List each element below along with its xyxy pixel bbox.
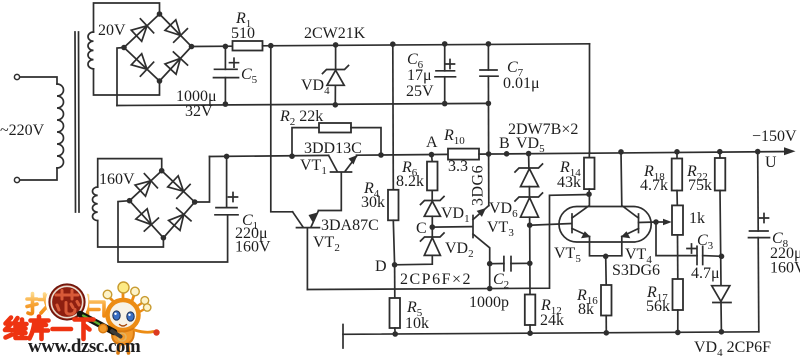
svg-text:3.3: 3.3 [448, 158, 468, 175]
wire: R2 right down to rail [351, 128, 381, 155]
node C7 at common bus [486, 101, 492, 107]
wire diode to ground bus [720, 303, 722, 332]
zener VD4 triangle [327, 70, 344, 85]
watermark magnifier lens [49, 284, 85, 320]
zener VD1 triangle [424, 201, 440, 216]
svg-text:−150V: −150V [752, 128, 797, 145]
node C7/VT3 riser [486, 151, 492, 157]
VT1 collector lead [329, 155, 337, 171]
resistor R14 [584, 158, 595, 190]
bridge2 diode bottom-left [136, 209, 151, 225]
wire: bridge1 right to R1 [192, 45, 233, 47]
node R22 top [717, 149, 723, 155]
zener VD2 bar [421, 233, 445, 241]
plus sign C6 [446, 60, 455, 69]
node D [392, 262, 398, 268]
capacitor C1 plates [216, 207, 237, 209]
diode VD4(2CP6F) bar [713, 302, 731, 304]
node VD6 bottom [527, 222, 533, 228]
wire pot to R17 [677, 235, 679, 279]
node C3 right [719, 253, 725, 259]
node bridge1 bottom [157, 78, 163, 84]
plus sign C3 [687, 244, 696, 253]
wire: R1 to top bus [263, 44, 590, 46]
char wei [5, 318, 27, 339]
svg-text:2CP6F×2: 2CP6F×2 [400, 271, 472, 288]
mascot hand on pen [99, 324, 107, 332]
svg-text:30k: 30k [361, 194, 385, 211]
node top bus x393 [390, 41, 396, 47]
node C7 top [486, 41, 492, 47]
node C5 top [223, 44, 229, 50]
node R18 top [674, 149, 680, 155]
primary winding [57, 84, 64, 168]
wire: 160V positive rail [210, 155, 329, 156]
svg-text:D: D [375, 258, 387, 275]
node bridge2 right [192, 199, 198, 205]
node C2 right [527, 261, 533, 267]
wire: VT5 emitter to common [590, 237, 606, 256]
svg-text:3DD13C: 3DD13C [304, 140, 362, 157]
svg-text:43k: 43k [557, 174, 581, 191]
wire: C node to VT3 base [432, 226, 472, 229]
bridge1 diamond [124, 14, 192, 81]
node VT4 collector at rail [618, 149, 624, 155]
wire: VT4 emitter to common [606, 237, 622, 256]
resistor R16 [601, 285, 612, 316]
wire: VD6 node to VT5 base [530, 224, 571, 226]
wire: common bus 32V [117, 103, 488, 105]
wire: rail to R22 [719, 152, 721, 158]
svg-text:75k: 75k [688, 177, 712, 194]
svg-text:20V: 20V [98, 22, 126, 39]
svg-text:25V: 25V [406, 83, 434, 100]
svg-text:17μ: 17μ [407, 67, 432, 84]
wire: primary bottom to AC terminal bottom [18, 168, 57, 180]
zener VD4 bar [323, 66, 349, 74]
VT2 base lead down to feedback line [306, 229, 308, 290]
zener VD5 triangle [521, 169, 539, 187]
terminal bottom [14, 177, 19, 182]
VT3 collector lead [473, 234, 490, 264]
watermark char pian (chip) [88, 296, 105, 317]
capacitor C8 plates [750, 230, 769, 232]
node VD4 top [333, 42, 339, 48]
node R5 at bus [392, 331, 398, 337]
wire: rail to R18 [676, 152, 678, 159]
VT5 emitter lead with arrow [572, 229, 590, 237]
svg-text:2CW21K: 2CW21K [304, 25, 366, 42]
wire: C2 right to VD6 node line [511, 262, 530, 264]
resistor R4 [388, 190, 399, 221]
char xia [75, 320, 94, 340]
wire VD2 to D node [395, 255, 433, 264]
bridge1 diode top-right [165, 20, 181, 36]
svg-text:160V: 160V [235, 239, 271, 256]
resistor R2 [319, 123, 351, 133]
transistor VT5 base bar [571, 214, 573, 233]
VT1 emitter lead with arrow [345, 156, 356, 171]
pot wiper arrow [656, 221, 668, 223]
node B [504, 151, 510, 157]
wire: 20V top to bridge1 top [94, 3, 160, 32]
svg-text:32V: 32V [185, 103, 213, 120]
svg-text:www.dzsc.com: www.dzsc.com [28, 336, 141, 356]
node VT4 base / wiper junction [653, 219, 659, 225]
char yi [53, 327, 72, 332]
svg-text:A: A [426, 134, 438, 151]
node R12 at bus [527, 330, 533, 336]
mascot antenna center [122, 291, 125, 300]
svg-text:24k: 24k [540, 312, 564, 329]
node emitters common [603, 253, 609, 259]
VT2 collector lead [293, 212, 303, 227]
node C5 bottom [223, 101, 229, 107]
svg-text:4.7μ: 4.7μ [691, 265, 720, 282]
resistor R22 [715, 158, 726, 191]
svg-text:510: 510 [231, 25, 255, 42]
watermark text weiku yixia (vector strokes) [5, 317, 94, 340]
wire R17 to ground bus [677, 310, 679, 332]
capacitor C6 plates [436, 70, 455, 72]
wire: wiper node down and right to C3 [656, 222, 697, 256]
node C8 top [755, 149, 761, 155]
wire R5 to ground bus [394, 328, 396, 334]
watermark char xin (core) inside magnifier [56, 291, 79, 315]
svg-text:S3DG6: S3DG6 [612, 262, 660, 279]
wire R22 down to diode [720, 191, 721, 286]
plus sign C8 [760, 214, 769, 223]
resistor R6 [427, 162, 438, 191]
wire: rail left riser for R2 [292, 128, 319, 157]
node R14 bottom [586, 191, 592, 197]
VT3 emitter lead with arrow up [473, 206, 489, 220]
svg-text:~220V: ~220V [0, 122, 45, 139]
node VT3 collector at line [487, 286, 493, 292]
wire C6 top [444, 44, 446, 71]
mascot head ring [108, 300, 139, 330]
node VD at bus [719, 329, 725, 335]
watermark magnifier handle / pen [80, 314, 114, 332]
node bridge2 left [127, 198, 133, 204]
node R17 at bus [675, 330, 681, 336]
mascot mouth [120, 325, 127, 327]
wire: C5 top [224, 46, 226, 69]
mascot antenna right2 [138, 302, 144, 306]
core [74, 32, 77, 212]
plus sign C5 [230, 58, 239, 67]
wire VD1 to C [431, 216, 433, 227]
resistor R12 [525, 295, 536, 326]
wire: long feedback line [307, 195, 589, 290]
transistor VT1 base bar [331, 171, 352, 173]
svg-text:3DG6: 3DG6 [470, 165, 487, 206]
bridge2 diamond [130, 171, 195, 238]
wire C7 bottom down to mid rail [487, 76, 489, 154]
wire: C1 top riser [226, 156, 228, 207]
node R2 right at rail [378, 152, 384, 158]
node bridge1 left [121, 45, 127, 51]
bridge2 diode bottom-right [169, 214, 184, 230]
wire R16 to ground bus [605, 316, 607, 334]
node VT3 collector / C2 left [487, 261, 493, 267]
node R16 at bus [604, 330, 610, 336]
wire: C8 bottom to ground bus corner [757, 238, 760, 332]
wire: rail VT1 emitter to R10 [357, 153, 449, 156]
wire: top bus down to R4 [392, 44, 395, 190]
wire: AC terminal top to primary [18, 77, 57, 84]
resistor R1 [233, 41, 263, 51]
capacitor C2 plates [503, 257, 505, 271]
zener VD2 triangle [424, 238, 440, 256]
wire VD4 top [335, 45, 337, 70]
node riser top at R1 output [268, 43, 274, 49]
wire: common to R16 [605, 256, 608, 285]
diode VD4(2CP6F) triangle [712, 286, 730, 302]
wire: C5 bottom [224, 78, 226, 105]
svg-text:0.01μ: 0.01μ [503, 75, 540, 92]
wire: riser from R1 node down to VT2 collector [271, 46, 293, 212]
mascot eyes [113, 311, 120, 320]
wire D to R5 [394, 265, 396, 298]
svg-text:10k: 10k [405, 315, 429, 332]
wire R4 to D [393, 220, 394, 264]
zener VD1 bar [421, 197, 445, 205]
stadium outline [559, 207, 651, 243]
160V secondary winding [92, 187, 97, 221]
mascot antenna right3 [139, 309, 146, 313]
node bridge1 top [157, 11, 163, 17]
potentiometer 1k box [672, 205, 683, 235]
wire: bridge2 left corner to C1 negative [118, 201, 228, 262]
node bridge1 right [189, 44, 195, 50]
node C6 top [442, 41, 448, 47]
transistor VT4 base bar [638, 214, 640, 233]
capacitor C7 plates [480, 69, 497, 71]
VT2 emitter lead with arrow [311, 211, 318, 227]
wire: rail to C8 [757, 152, 760, 231]
svg-text:56k: 56k [646, 298, 670, 315]
svg-text:160V: 160V [99, 171, 135, 188]
wire: 20V bottom to bridge1 bottom [94, 69, 160, 95]
capacitor C5 plates [215, 68, 238, 70]
resistor R10 [448, 149, 479, 160]
wire C to VD2 [431, 227, 433, 237]
wire R14 bottom [588, 189, 590, 194]
wire: VD5 top [528, 154, 530, 168]
arrow -150V output [784, 147, 796, 155]
wire C7 top [487, 44, 489, 70]
svg-text:3DA87C: 3DA87C [321, 217, 379, 234]
wire: VT3 emitter riser to B rail [488, 154, 490, 206]
VT4 collector lead riser to rail [621, 152, 639, 218]
node VD5 top [526, 151, 532, 157]
wire: 160V top to bridge2 top [98, 159, 162, 187]
bridge1 diode top-left [131, 26, 147, 42]
wire: bridge1 left corner down to common bus [117, 48, 124, 106]
node C1 at rail [224, 154, 230, 160]
wire C6 bottom [444, 77, 446, 104]
node bridge2 top [159, 168, 165, 174]
node VD4 bottom [333, 102, 339, 108]
mascot antenna left [109, 297, 114, 302]
watermark magnifier white ring [48, 283, 87, 322]
capacitor C3 plates [696, 246, 698, 264]
plus sign C1 [229, 193, 238, 202]
wire: VT4 base out [639, 221, 657, 224]
char ku [30, 317, 49, 340]
VT1 base lead [318, 173, 341, 211]
transistor VT2 base bar [297, 227, 320, 229]
wire: C2 left [490, 263, 504, 265]
wire: rail R10 to right arrow [479, 152, 791, 155]
zener VD5 bar [515, 164, 543, 172]
watermark char zhao (find) [27, 294, 52, 315]
svg-text:U: U [765, 154, 777, 171]
wire: 160V bottom to bridge2 bottom [98, 221, 164, 247]
wire: top bus right corner down [589, 44, 591, 153]
node R2 left at rail [289, 153, 295, 159]
resistor R18 [672, 159, 683, 191]
resistor R5 [390, 298, 401, 328]
node A [429, 152, 435, 158]
wire: C3 right to R22 riser [703, 255, 722, 258]
resistor R17 [673, 279, 684, 310]
bridge1 diode bottom-right [165, 58, 180, 74]
ground bus terminator bar [342, 325, 344, 349]
node C6 bottom [442, 101, 448, 107]
VT4 emitter lead with arrow [622, 229, 639, 237]
mascot body [112, 329, 134, 345]
wire: riser through rail into R14 [588, 152, 590, 157]
ground bus [343, 332, 759, 335]
wire VD4 bottom [334, 85, 336, 105]
wire R18 to pot [676, 191, 678, 206]
mascot legs [118, 345, 129, 354]
svg-text:VD4 2CP6F: VD4 2CP6F [694, 339, 771, 356]
wire R12 to ground bus [529, 325, 531, 333]
svg-text:8k: 8k [578, 301, 594, 318]
svg-text:1k: 1k [689, 210, 705, 227]
mascot arm right [135, 330, 154, 332]
bridge1 diode bottom-left [131, 54, 147, 69]
svg-text:1000p: 1000p [469, 294, 509, 311]
wire: VT3 collector to feedback line [489, 264, 491, 289]
wire VD6 to node [529, 217, 531, 225]
svg-text:8.2k: 8.2k [396, 173, 424, 190]
mascot antenna right1 [132, 294, 135, 301]
wire: VD6 node down through C2 node to R12 [529, 225, 531, 294]
wire VD5-VD6 [528, 187, 530, 197]
svg-text:C: C [416, 220, 427, 237]
bridge2 diode top-right [168, 176, 184, 192]
zener VD6 bar [515, 193, 543, 201]
transistor VT3 base bar [472, 216, 474, 238]
svg-text:160V: 160V [770, 260, 800, 277]
VT5 collector lead [572, 194, 589, 218]
node C [430, 224, 436, 230]
wire R6 to VD1 [431, 190, 433, 200]
20V secondary winding [88, 32, 94, 69]
node bridge2 bottom [161, 235, 167, 241]
svg-text:4.7k: 4.7k [640, 177, 668, 194]
bridge2 diode top-left [135, 181, 151, 196]
wire: A to R6 [431, 155, 434, 162]
wire: bridge2 right corner up to 160V rail [195, 157, 210, 203]
zener VD6 triangle [521, 198, 539, 218]
terminal top [14, 74, 19, 79]
